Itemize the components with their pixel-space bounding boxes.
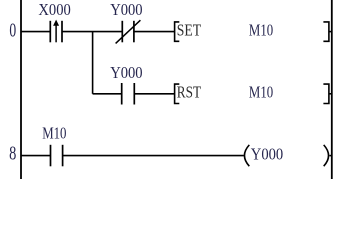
- contact Y000 normally-closed: [116, 20, 141, 43]
- svg-text:0: 0: [9, 19, 16, 41]
- wire rung3 left: [21, 155, 51, 157]
- contact Y000 normally-open: [122, 83, 135, 105]
- node branch junction: [92, 32, 94, 94]
- contact M10 normally-open: [51, 145, 63, 167]
- wire rung2 right: [134, 93, 174, 95]
- SET instruction left bracket: [175, 22, 180, 41]
- svg-text:SET: SET: [177, 21, 202, 40]
- wire rung1 left: [21, 31, 50, 33]
- wire stub rung1 to right rail: [329, 31, 332, 33]
- svg-text:Y000: Y000: [110, 0, 142, 19]
- wire rung3 right: [63, 155, 244, 157]
- svg-text:M10: M10: [42, 123, 66, 142]
- svg-text:M10: M10: [249, 21, 273, 40]
- RST instruction left bracket: [175, 84, 180, 103]
- RST instruction right bracket: [323, 84, 329, 103]
- svg-text:8: 8: [9, 141, 16, 164]
- coil Y000 opening paren: [244, 145, 249, 166]
- svg-text:M10: M10: [249, 83, 273, 102]
- svg-text:X000: X000: [38, 0, 70, 19]
- right power rail: [331, 0, 333, 179]
- coil Y000 closing paren: [324, 145, 329, 166]
- left power rail: [20, 0, 22, 179]
- wire rung2 left: [93, 93, 122, 95]
- SET instruction right bracket: [323, 22, 329, 41]
- wire rung1 right: [134, 31, 175, 33]
- svg-text:RST: RST: [177, 83, 202, 102]
- svg-text:Y000: Y000: [110, 63, 142, 82]
- svg-text:Y000: Y000: [251, 145, 283, 164]
- wire stub rung2 to right rail: [329, 93, 332, 95]
- wire stub rung3 to right rail: [330, 155, 332, 157]
- contact X000 rising-edge pulse: [50, 20, 62, 43]
- wire rung1 middle: [62, 31, 122, 33]
